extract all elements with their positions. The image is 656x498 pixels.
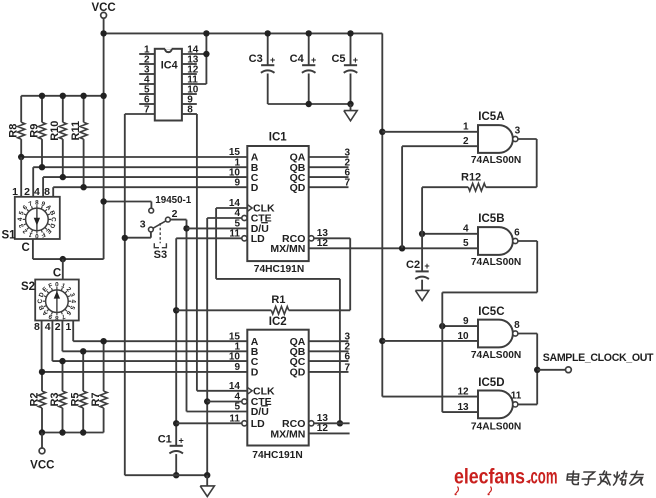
svg-text:7: 7 <box>144 104 150 115</box>
svg-text:11: 11 <box>511 391 522 402</box>
svg-text:R12: R12 <box>461 171 481 183</box>
svg-text:12: 12 <box>457 387 469 398</box>
svg-text:C: C <box>50 217 57 222</box>
svg-text:QD: QD <box>290 367 306 379</box>
svg-text:D: D <box>251 182 259 194</box>
svg-text:2: 2 <box>172 208 178 220</box>
svg-text:C1: C1 <box>158 434 172 446</box>
svg-text:R9: R9 <box>28 124 40 138</box>
svg-text:6: 6 <box>514 227 520 238</box>
svg-text:8: 8 <box>34 321 40 333</box>
svg-text:+: + <box>178 436 183 446</box>
svg-text:IC5D: IC5D <box>478 377 504 389</box>
svg-text:C5: C5 <box>331 53 345 65</box>
svg-text:6: 6 <box>344 352 350 363</box>
svg-text:13: 13 <box>457 402 469 413</box>
svg-text:+: + <box>270 55 275 65</box>
svg-text:2: 2 <box>463 136 469 147</box>
svg-text:74ALS00N: 74ALS00N <box>471 350 521 361</box>
svg-text:R7: R7 <box>90 392 102 406</box>
svg-text:12: 12 <box>317 238 329 249</box>
svg-text:IC5B: IC5B <box>478 213 504 225</box>
svg-text:8: 8 <box>187 104 193 115</box>
svg-text:com: com <box>531 465 558 488</box>
svg-text:74HC191N: 74HC191N <box>254 264 304 275</box>
svg-text:D: D <box>251 367 259 379</box>
svg-text:+: + <box>353 55 358 65</box>
svg-text:+: + <box>311 55 316 65</box>
svg-text:3: 3 <box>140 218 146 230</box>
svg-text:R11: R11 <box>70 121 82 141</box>
svg-text:R1: R1 <box>271 294 285 306</box>
svg-text:LD: LD <box>251 233 265 245</box>
svg-text:elecfans: elecfans <box>454 465 525 488</box>
svg-text:C2: C2 <box>406 259 420 271</box>
svg-text:SAMPLE_CLOCK_OUT: SAMPLE_CLOCK_OUT <box>543 352 654 364</box>
svg-text:74HC191N: 74HC191N <box>252 450 302 461</box>
svg-text:10: 10 <box>229 351 241 362</box>
svg-text:R5: R5 <box>70 392 82 406</box>
svg-text:+: + <box>424 261 429 271</box>
svg-text:IC1: IC1 <box>269 132 288 144</box>
svg-text:3: 3 <box>515 125 521 136</box>
svg-text:IC4: IC4 <box>161 60 178 72</box>
svg-text:4: 4 <box>45 321 51 333</box>
svg-text:R2: R2 <box>28 392 40 406</box>
svg-text:9: 9 <box>463 316 469 327</box>
svg-text:LD: LD <box>251 418 265 430</box>
svg-text:10: 10 <box>457 331 469 342</box>
svg-text:9: 9 <box>234 362 240 373</box>
svg-text:1: 1 <box>463 122 469 133</box>
svg-text:IC5A: IC5A <box>478 111 504 123</box>
svg-text:2: 2 <box>55 321 61 333</box>
svg-text:D/U: D/U <box>251 406 269 418</box>
svg-text:4: 4 <box>70 299 77 303</box>
svg-text:0: 0 <box>55 281 59 288</box>
svg-text:1: 1 <box>66 321 72 333</box>
svg-text:4: 4 <box>17 217 24 221</box>
svg-text:8: 8 <box>514 320 520 331</box>
svg-text:R10: R10 <box>49 121 61 141</box>
svg-text:S3: S3 <box>154 249 167 261</box>
svg-text:IC5C: IC5C <box>478 306 504 318</box>
svg-text:MX/MN: MX/MN <box>270 243 305 255</box>
svg-text:C4: C4 <box>290 53 305 65</box>
svg-text:MX/MN: MX/MN <box>270 428 305 440</box>
svg-text:R3: R3 <box>49 392 61 406</box>
svg-text:4: 4 <box>463 224 469 235</box>
svg-text:8: 8 <box>35 200 39 207</box>
svg-text:C: C <box>21 242 29 254</box>
svg-text:74ALS00N: 74ALS00N <box>471 421 521 432</box>
svg-text:R8: R8 <box>8 124 20 138</box>
svg-text:S2: S2 <box>21 281 35 293</box>
svg-text:VCC: VCC <box>30 460 54 472</box>
svg-text:0: 0 <box>35 232 39 239</box>
svg-text:19450-1: 19450-1 <box>155 195 192 206</box>
svg-text:7: 7 <box>344 362 350 373</box>
svg-text:IC2: IC2 <box>269 316 287 328</box>
svg-text:12: 12 <box>317 423 329 434</box>
svg-text:7: 7 <box>344 178 350 189</box>
svg-text:C: C <box>37 298 44 303</box>
svg-text:74ALS00N: 74ALS00N <box>471 155 521 166</box>
svg-text:QD: QD <box>290 182 306 194</box>
svg-text:9: 9 <box>234 177 240 188</box>
svg-text:C: C <box>53 268 61 280</box>
svg-text:8: 8 <box>55 314 59 321</box>
svg-text:5: 5 <box>463 238 469 249</box>
svg-text:C3: C3 <box>249 53 263 65</box>
svg-text:74ALS00N: 74ALS00N <box>471 257 521 268</box>
svg-text:S1: S1 <box>2 230 17 242</box>
